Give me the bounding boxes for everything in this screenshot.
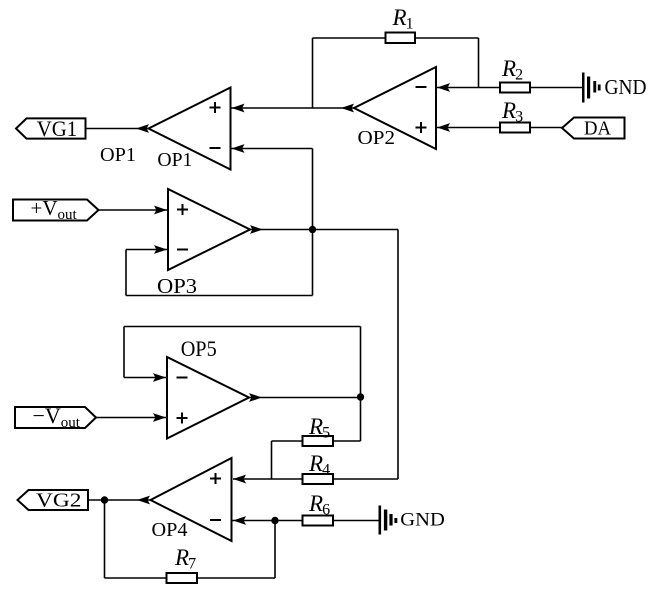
op-amp OP1 [149, 88, 231, 170]
resistor R6 [303, 516, 334, 526]
wire R5 left [272, 440, 303, 442]
wire OP3 feedback bottom [126, 295, 313, 297]
junction node at OP3 output [309, 226, 316, 233]
arrow into OP3 minus input [154, 245, 167, 254]
wire vertical OP3 output to R4 [397, 230, 399, 480]
svg-text:GND: GND [400, 510, 445, 531]
arrow OP4 output [137, 496, 150, 505]
wire OP5 feedback right vertical through output node down to R5 [360, 327, 362, 442]
wire OP1 minus input [231, 148, 313, 150]
svg-text:OP4: OP4 [152, 519, 188, 541]
resistor R7 [167, 573, 198, 583]
wire R1 feedback left vertical [312, 38, 314, 108]
wire OP4 output to VG2 [88, 499, 151, 501]
wire -Vout to OP5 plus input [96, 417, 167, 419]
wire R5 left vertical down to R4 line [271, 441, 273, 479]
node +Vout tag [13, 196, 99, 223]
arrow into OP2 minus input [437, 83, 450, 92]
svg-text:DA: DA [584, 118, 612, 140]
arrow into OP2 plus input [437, 123, 450, 132]
wire OP2 plus input to DA [436, 127, 562, 129]
op-amp OP3 [157, 189, 250, 298]
arrow into OP1 plus input [232, 104, 245, 113]
arrow into OP5 minus input [153, 373, 166, 382]
svg-text:OP3: OP3 [157, 274, 197, 298]
svg-text:OP5: OP5 [181, 336, 217, 361]
node VG1 tag [16, 116, 86, 141]
wire R1 right vertical [478, 38, 480, 88]
wire OP1 output to VG1 [86, 128, 149, 130]
arrow into OP1 minus input [232, 144, 245, 153]
wire OP5 feedback top [124, 326, 361, 328]
arrow into OP4 plus input [233, 475, 246, 484]
wire OP5 output [249, 397, 361, 399]
wire OP2 minus input to GND [436, 87, 582, 89]
op-amp OP4 [151, 458, 232, 541]
node VG2 tag [18, 490, 89, 512]
resistor R3 [500, 123, 530, 133]
svg-text:OP1: OP1 [157, 149, 192, 171]
svg-text:VG2: VG2 [36, 491, 82, 512]
wire OP5 feedback left vertical [123, 327, 125, 378]
resistor R1 [386, 33, 416, 44]
wire R7 bottom left [105, 577, 167, 579]
resistor R4 [303, 474, 334, 484]
arrow OP1 output [136, 124, 149, 133]
arrow OP2 output [341, 104, 354, 113]
ground GND top [582, 73, 647, 103]
junction node on OP4 minus input [271, 517, 278, 524]
arrow into OP5 plus input [153, 413, 166, 422]
wire OP3 feedback left vertical [125, 250, 127, 296]
wire R1 top left [313, 37, 386, 39]
wire R1 top right [415, 37, 479, 39]
wire +Vout to OP3 plus input [99, 209, 169, 211]
resistor R2 [500, 83, 530, 93]
op-amp OP5 [167, 336, 249, 439]
ground GND bottom [379, 506, 445, 535]
wire OP3 output [250, 229, 398, 231]
svg-text:VG1: VG1 [37, 116, 77, 141]
junction node on OP4 output [101, 496, 108, 503]
wire R5 right [333, 440, 361, 442]
svg-text:OP1: OP1 [100, 144, 136, 166]
wire R4 line to OP4 plus input [233, 478, 303, 480]
arrow OP5 output [249, 393, 262, 402]
wire OP2 output to OP1 plus input [231, 107, 355, 109]
node DA tag [562, 118, 625, 140]
arrow OP3 output [250, 225, 263, 234]
wire R7 left vertical [104, 500, 106, 578]
wire OP4 minus input [232, 520, 303, 522]
wire OP5 minus input [124, 377, 167, 379]
svg-text:GND: GND [605, 75, 647, 99]
arrow into OP3 plus input [154, 206, 167, 215]
junction node at OP5 output [357, 393, 364, 400]
wire vertical OP1 minus to OP3 output node [312, 149, 314, 296]
wire R4 right [333, 478, 398, 480]
wire OP3 minus input [126, 249, 168, 251]
node -Vout tag [15, 403, 96, 431]
arrow into OP4 minus input [233, 516, 246, 525]
wire R6 to GND [333, 520, 379, 522]
resistor R5 [303, 436, 334, 446]
wire R7 right vertical [274, 521, 276, 579]
svg-text:OP2: OP2 [358, 127, 396, 149]
op-amp OP2 [354, 67, 436, 149]
wire R7 bottom right [197, 577, 275, 579]
